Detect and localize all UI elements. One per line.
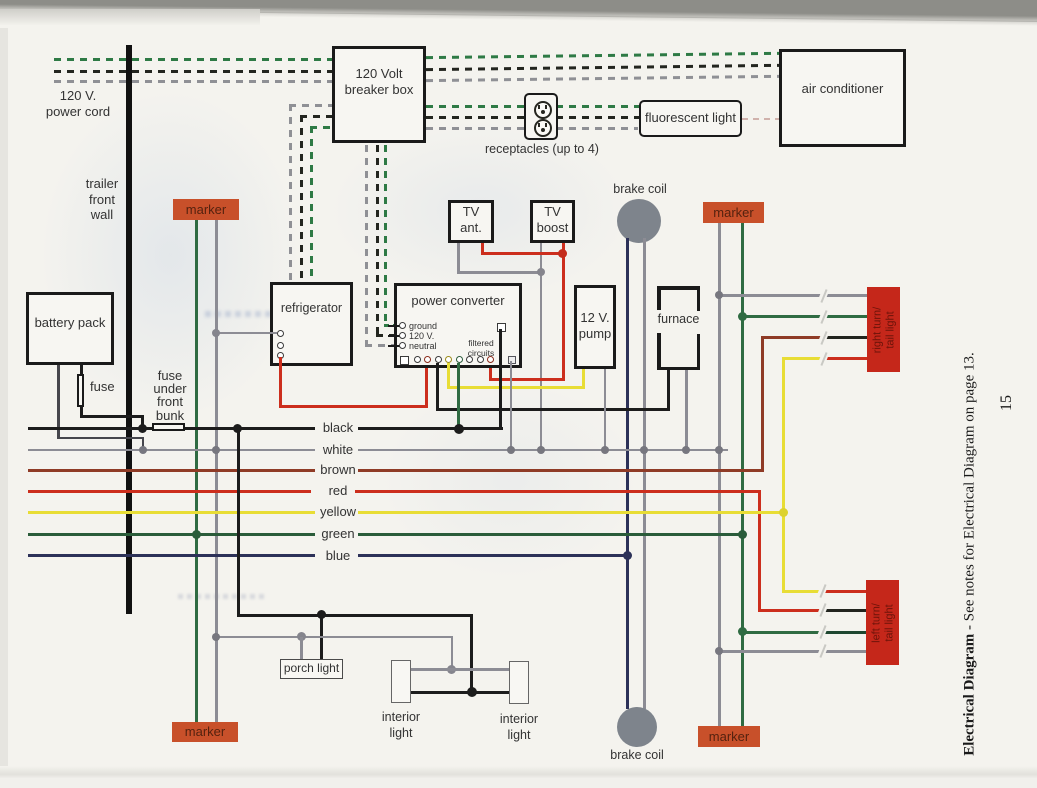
wire: gray to left tail light [719, 650, 866, 653]
wire: green dashed vert [310, 126, 313, 281]
wire: gray from left marker down to bottom marker [215, 220, 218, 722]
converter small square upper (black bus output) [497, 323, 506, 332]
wire: green from left marker down to bottom marker [195, 220, 198, 722]
wire: gray pump to white bus [604, 369, 607, 450]
wire: green to left tail light [742, 631, 824, 634]
wire: green converter to black bus [457, 363, 460, 429]
node: gray marker branch [212, 633, 220, 641]
node: white bus right marker junction [715, 446, 723, 454]
wire: gray converter to white bus [510, 361, 513, 450]
wire: gray porch drop [300, 637, 303, 659]
wire: battery negative down [57, 365, 60, 439]
yellow bus [28, 511, 315, 514]
receptacles [524, 93, 558, 140]
wire: gray from right marker down to bottom-right marker [718, 223, 721, 726]
breaker box U1 [332, 46, 426, 143]
node: white bus brake junction [640, 446, 648, 454]
wire: battery positive to fuse [80, 365, 83, 376]
wire: green dashed 120V line [54, 58, 332, 61]
node: black bus battery junction [138, 424, 147, 433]
wire: green to right tail light [742, 315, 867, 318]
marker bottom-right [698, 726, 760, 747]
wire: gray dashed vert to neutral [365, 145, 368, 345]
red bus [28, 490, 311, 493]
node: black bus green junction [454, 424, 464, 434]
furnace [657, 286, 700, 370]
brake coil bottom [617, 707, 657, 747]
fuse under front bunk F2 [152, 423, 185, 431]
converter terminal square [400, 356, 409, 365]
wire: black dashed horiz [300, 115, 332, 118]
wire: red then black to left tail light [758, 609, 824, 612]
interior light 1 [391, 660, 411, 703]
TV boost box [530, 200, 575, 243]
wire: yellow riser/drop at tail lights [782, 357, 785, 592]
wire: gray TV ant down/right [457, 243, 460, 273]
node: red junction TV [558, 249, 567, 258]
wire: gray drop to interior lights [451, 636, 454, 670]
wire: green dashed to fluorescent [426, 105, 641, 108]
brake coil top [617, 199, 661, 243]
wire: black dashed vert to 120V [376, 145, 379, 335]
wire: navy brake line down [626, 238, 629, 709]
wire: gray dashed stub [426, 127, 638, 130]
wire: green from right marker down to bottom-right marker [741, 223, 744, 726]
label trailer front wall [62, 176, 142, 223]
wire: gray dashed horiz [289, 104, 332, 107]
node: white bus TV junction [537, 446, 545, 454]
power converter [394, 283, 522, 368]
wire: brown then black to right tail light [761, 336, 825, 339]
node: black bus porch junction [233, 424, 242, 433]
white bus [28, 449, 315, 452]
wire: green dashed vert to ground [384, 145, 387, 325]
wire: gray marker to refrigerator [216, 332, 277, 335]
left turn tail light [866, 580, 899, 665]
node: black porch branch [317, 610, 326, 619]
node: gray junction right marker [715, 291, 723, 299]
wire: black bus riser to converter square [499, 329, 502, 429]
green bus [28, 533, 315, 536]
scan background bands [0, 0, 1037, 23]
12 V. pump [574, 285, 616, 369]
air conditioner [779, 49, 906, 147]
battery pack [26, 292, 114, 365]
connector slash marks [817, 287, 829, 304]
wire: faint dashed fluorescent to AC [742, 118, 779, 120]
wire: gray dashed 120V line [54, 80, 332, 83]
label fuse under front bunk [130, 369, 210, 422]
wire: yellow then red to left tail light [782, 590, 825, 593]
brown bus [28, 469, 315, 472]
wire: gray dashed vert [289, 104, 292, 281]
porch light [280, 659, 343, 679]
node: white bus battery junction [139, 446, 147, 454]
node: blue bus brake junction [623, 551, 632, 560]
node: green bus right junction [738, 530, 747, 539]
node: gray interior junction [447, 665, 456, 674]
node: black interior junction [467, 687, 477, 697]
receptacle outlet bottom [534, 119, 552, 137]
node: green junction left [738, 627, 747, 636]
converter terminal circles [414, 356, 421, 363]
refrigerator terminals [277, 330, 284, 337]
wire: black distribution porch/interior [237, 428, 240, 617]
converter gray terminal [508, 356, 516, 364]
wire: red drop to left tail light [758, 490, 761, 612]
wire: black dashed to AC [426, 63, 779, 70]
wire: gray furnace to white bus [685, 370, 688, 450]
wire: red TV boost down to converter [562, 243, 565, 381]
marker bottom-left [172, 722, 238, 742]
node: yellow junction [779, 508, 788, 517]
TV ant box [448, 200, 494, 243]
node: green junction right marker [738, 312, 747, 321]
page number 15 vertical [998, 395, 1016, 411]
node: white bus marker junction [212, 446, 220, 454]
node: gray junction left [715, 647, 723, 655]
right turn tail light [867, 287, 900, 372]
converter stub 120 V. [388, 335, 400, 338]
caption: Electrical Diagram vertical [962, 352, 979, 756]
wire: gray distribution porch/interior [215, 636, 453, 639]
wire: gray to right tail light [719, 294, 867, 297]
wire: black between interior lights [411, 691, 509, 694]
wire: red riser from converter terminal [489, 364, 492, 381]
interior light 2 [509, 661, 529, 704]
blue bus [28, 554, 315, 557]
node: white bus converter junction [507, 446, 515, 454]
wire: black dashed vert [300, 115, 303, 281]
wire: yellow then red to right tail light [782, 357, 826, 360]
wire: green dashed horiz [310, 126, 332, 129]
wire: fuse to black bus [80, 405, 83, 418]
wire: gray between interior lights [411, 668, 509, 671]
receptacle outlet top [534, 101, 552, 119]
label 120 V. power cord [28, 88, 128, 119]
wire: gray dashed to AC [426, 74, 779, 81]
label receptacles [462, 142, 622, 158]
wire: black porch drop [320, 615, 323, 659]
marker top-right [703, 202, 764, 223]
wire: brown riser to right tail light [761, 336, 764, 471]
node: gray junction TV [537, 268, 545, 276]
label filtered circuits [451, 339, 511, 358]
trailer front wall [126, 45, 132, 614]
wire: red refrigerator down/right to converter [279, 357, 282, 408]
black bus [28, 427, 315, 430]
wire: green dashed to AC [426, 52, 779, 59]
node: white bus pump junction [601, 446, 609, 454]
wire: red horizontal to converter [489, 378, 565, 381]
wire: black converter to furnace [436, 363, 439, 411]
wire: red TV ant down/right [481, 243, 484, 254]
node: white bus furnace junction [682, 446, 690, 454]
converter stub neutral [388, 345, 400, 348]
converter stub ground [388, 325, 400, 328]
wire: gray TV boost down to white bus [540, 243, 543, 451]
node: green bus marker junction [192, 530, 201, 539]
wire: gray brake return down [643, 238, 646, 709]
refrigerator [270, 282, 353, 366]
node: gray porch branch [297, 632, 306, 641]
bleedthrough ghosts [40, 90, 300, 420]
fuse F1 [77, 374, 84, 407]
wire: yellow converter to pump [447, 363, 450, 389]
marker top-left [173, 199, 239, 220]
wire: black dashed to fluorescent [426, 116, 641, 119]
node: gray junction at marker line [212, 329, 220, 337]
fluorescent light [639, 100, 742, 137]
wire: black dashed 120V line [54, 70, 332, 73]
